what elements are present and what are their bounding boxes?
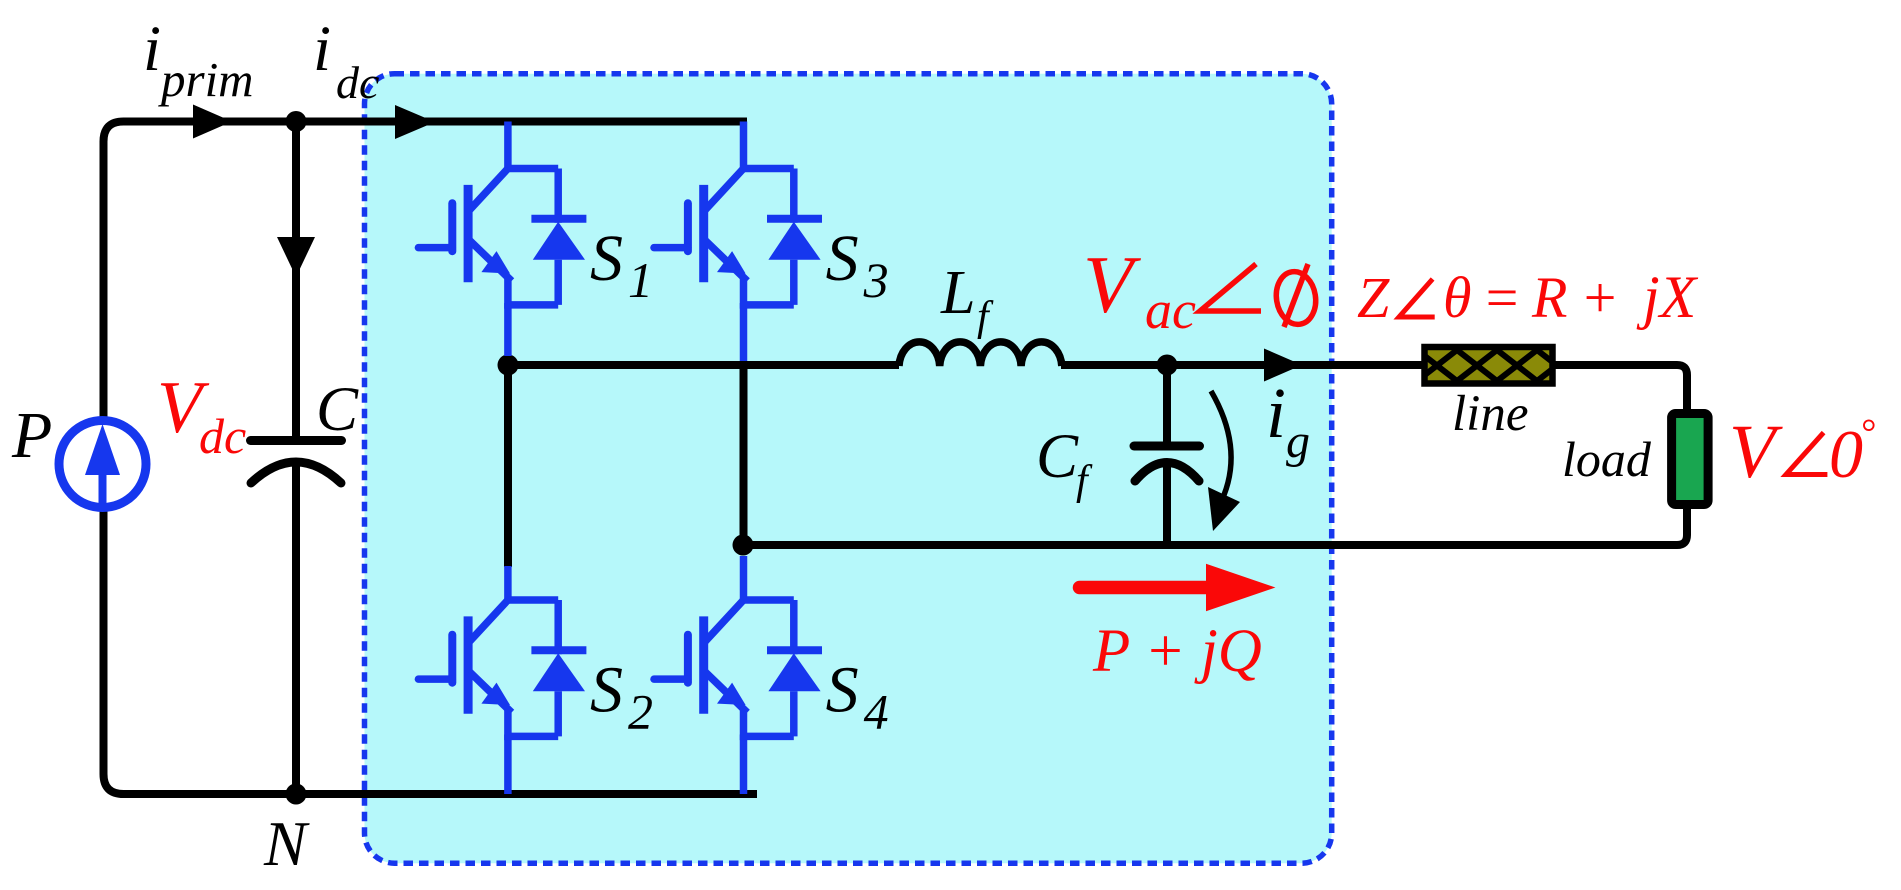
junction node N junction — [286, 784, 307, 805]
label V angle 0 deg (red) — [1729, 410, 1875, 494]
capacitor Cf (filter) — [1134, 365, 1200, 545]
junction node A (leg A midpoint) — [498, 355, 519, 376]
wire: right loop (line to load to bottom return) — [743, 365, 1687, 545]
arrow i_prim (on top-left wire) — [193, 105, 232, 139]
curved arrow ig through Cf branch — [1211, 391, 1231, 495]
svg-text:C: C — [316, 374, 359, 444]
svg-text:θ: θ — [1443, 265, 1472, 330]
arrow i_dc (on top rail entering box) — [395, 105, 435, 139]
wire: left DC loop with rounded corners — [104, 122, 297, 795]
svg-text:S: S — [590, 654, 623, 727]
svg-text:dc: dc — [336, 57, 379, 108]
label V_dc — [157, 367, 246, 464]
svg-text:N: N — [263, 808, 310, 879]
junction node idc tap — [286, 111, 307, 132]
arrow P+jQ (red) — [1080, 581, 1207, 595]
svg-text:S: S — [826, 654, 859, 727]
svg-text:S: S — [826, 222, 859, 295]
svg-text:4: 4 — [864, 684, 889, 740]
svg-text:line: line — [1452, 386, 1528, 442]
wire: phase leg A midpoint down (to S2 collector) — [504, 365, 512, 567]
svg-text:°: ° — [1860, 412, 1875, 454]
wire: AC output top rail (node A to filter) — [508, 361, 899, 369]
wire: S3 collector — [740, 122, 748, 171]
junction node Vac (filter tap) — [1157, 355, 1178, 376]
wire: S1 collector — [504, 122, 512, 171]
svg-text:L: L — [940, 259, 975, 327]
svg-text:g: g — [1286, 415, 1310, 468]
transistor S3 (IGBT with antiparallel diode) — [654, 169, 822, 305]
inductor Lf — [899, 342, 1062, 366]
transistor S2 (IGBT with antiparallel diode) — [418, 600, 586, 736]
svg-text:V: V — [1083, 239, 1141, 330]
svg-text:i: i — [1266, 373, 1286, 453]
wire: S2 collector — [504, 566, 512, 601]
wire: DC-link capacitor branch upper — [292, 122, 300, 437]
wire: bottom DC rail — [296, 790, 757, 798]
transistor S1 (IGBT with antiparallel diode) — [418, 169, 586, 305]
svg-text:jX: jX — [1636, 264, 1699, 330]
wire: S4 collector — [740, 556, 748, 601]
label V_ac angle phi (red) — [1083, 239, 1196, 340]
svg-text:Z: Z — [1357, 265, 1390, 330]
svg-text:R: R — [1531, 265, 1567, 330]
svg-text:2: 2 — [628, 684, 653, 740]
wire: phase leg B midpoint (S3 emitter to node B) — [740, 365, 748, 545]
wire: DC-link capacitor branch lower — [292, 464, 300, 794]
svg-text:V: V — [1729, 410, 1783, 494]
arrow on capacitor branch (downward) — [277, 237, 315, 277]
svg-text:1: 1 — [628, 252, 653, 308]
arrow i_g (on AC output rail) — [1264, 349, 1302, 382]
svg-text:ac: ac — [1145, 280, 1196, 340]
svg-text:P + jQ: P + jQ — [1092, 618, 1262, 685]
junction node B (leg B midpoint) — [733, 535, 754, 556]
svg-text:prim: prim — [158, 52, 254, 107]
wire: S3 emitter to output rail — [740, 303, 748, 361]
label Z angle theta = R + jX (red) — [1357, 264, 1699, 330]
svg-text:C: C — [1036, 421, 1079, 491]
current source P (circle with up arrow) — [59, 421, 146, 508]
wire: S1 emitter to node A — [504, 303, 512, 356]
wire: top DC rail — [296, 118, 747, 126]
svg-text:0: 0 — [1829, 416, 1863, 492]
load (green rectangle) — [1672, 414, 1709, 505]
svg-text:load: load — [1562, 431, 1652, 487]
wire: S4 emitter to bottom rail — [740, 735, 748, 795]
svg-text:3: 3 — [863, 252, 889, 308]
svg-text:P: P — [11, 399, 52, 472]
capacitor C (DC link) — [251, 441, 342, 484]
transistor S4 (IGBT with antiparallel diode) — [654, 600, 822, 736]
wire: AC output top rail (filter to line impedance) — [1061, 361, 1424, 369]
svg-text:S: S — [590, 222, 623, 295]
svg-text:i: i — [313, 13, 331, 85]
svg-text:=: = — [1482, 265, 1521, 330]
svg-text:i: i — [143, 13, 161, 85]
svg-text:dc: dc — [199, 408, 246, 464]
svg-text:+: + — [1580, 265, 1619, 330]
wire: S2 emitter to bottom rail — [504, 735, 512, 795]
inverter boundary (dashed cyan box) — [365, 74, 1332, 864]
